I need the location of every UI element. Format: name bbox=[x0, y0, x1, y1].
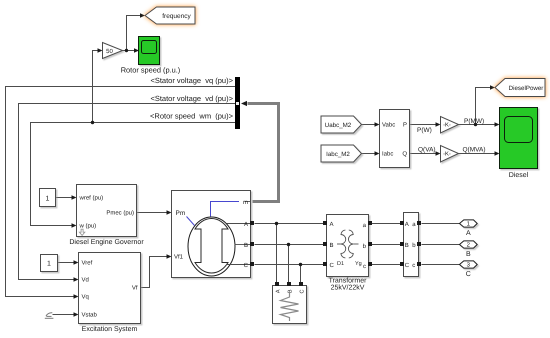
svg-text:Uabc_M2: Uabc_M2 bbox=[325, 122, 352, 129]
svg-text:Yg: Yg bbox=[355, 261, 362, 267]
svg-text:B: B bbox=[244, 242, 248, 249]
svg-text:A: A bbox=[405, 221, 409, 228]
svg-text:Pmec (pu): Pmec (pu) bbox=[106, 210, 134, 217]
svg-text:Diesel: Diesel bbox=[509, 171, 529, 179]
svg-text:Vstab: Vstab bbox=[82, 312, 98, 319]
svg-text:c: c bbox=[363, 264, 366, 270]
svg-text:Pm: Pm bbox=[176, 210, 186, 217]
svg-text:m: m bbox=[243, 200, 248, 206]
svg-text:DieselPower: DieselPower bbox=[509, 85, 544, 92]
svg-text:Transformer: Transformer bbox=[329, 277, 368, 285]
svg-text:C: C bbox=[405, 262, 410, 269]
svg-text:A: A bbox=[466, 230, 471, 237]
svg-text:P: P bbox=[403, 122, 407, 129]
svg-text:Vabc: Vabc bbox=[382, 122, 395, 129]
svg-text:frequency: frequency bbox=[162, 13, 191, 20]
svg-text:Q(VA): Q(VA) bbox=[418, 147, 436, 154]
svg-text:P(W): P(W) bbox=[417, 127, 432, 134]
svg-text:B: B bbox=[330, 242, 334, 249]
svg-text:<Stator voltage vd (pu)>: <Stator voltage vd (pu)> bbox=[150, 94, 233, 103]
svg-text:Iabc_M2: Iabc_M2 bbox=[326, 151, 350, 158]
svg-text:Iabc: Iabc bbox=[382, 151, 393, 158]
svg-text:Vf: Vf bbox=[132, 285, 138, 292]
svg-text:A: A bbox=[244, 221, 248, 228]
svg-text:A: A bbox=[330, 221, 334, 228]
svg-text:B: B bbox=[288, 289, 294, 293]
svg-text:c: c bbox=[412, 263, 415, 269]
svg-text:C: C bbox=[466, 271, 471, 278]
svg-text:Diesel Engine Governor: Diesel Engine Governor bbox=[69, 238, 144, 246]
svg-text:<Rotor speed wm (pu)>: <Rotor speed wm (pu)> bbox=[150, 112, 234, 121]
svg-text:1: 1 bbox=[47, 261, 51, 268]
svg-text:Vq: Vq bbox=[82, 294, 89, 301]
svg-text:<Stator voltage vq (pu)>: <Stator voltage vq (pu)> bbox=[150, 76, 233, 85]
svg-text:-K-: -K- bbox=[443, 123, 451, 129]
svg-text:B: B bbox=[466, 251, 471, 258]
svg-text:Vf1: Vf1 bbox=[174, 254, 184, 261]
svg-text:Q: Q bbox=[402, 151, 407, 158]
svg-text:Vref: Vref bbox=[82, 260, 93, 267]
svg-text:1: 1 bbox=[46, 195, 50, 202]
svg-text:Vd: Vd bbox=[82, 277, 89, 284]
svg-text:C: C bbox=[244, 262, 249, 269]
svg-text:w (pu): w (pu) bbox=[79, 223, 97, 230]
svg-text:-K-: -K- bbox=[443, 152, 451, 158]
svg-text:Excitation System: Excitation System bbox=[82, 325, 138, 333]
svg-text:P(MW): P(MW) bbox=[464, 118, 484, 125]
svg-text:Q(MVA): Q(MVA) bbox=[463, 147, 486, 154]
svg-text:25kV/22kV: 25kV/22kV bbox=[331, 284, 365, 292]
svg-text:wref (pu): wref (pu) bbox=[79, 195, 104, 202]
svg-text:B: B bbox=[405, 242, 409, 249]
svg-text:C: C bbox=[300, 289, 306, 293]
svg-text:Rotor speed (p.u.): Rotor speed (p.u.) bbox=[121, 65, 181, 74]
svg-text:D1: D1 bbox=[337, 261, 344, 267]
svg-text:A: A bbox=[276, 289, 282, 293]
svg-text:C: C bbox=[330, 262, 335, 269]
svg-text:50: 50 bbox=[106, 48, 113, 55]
